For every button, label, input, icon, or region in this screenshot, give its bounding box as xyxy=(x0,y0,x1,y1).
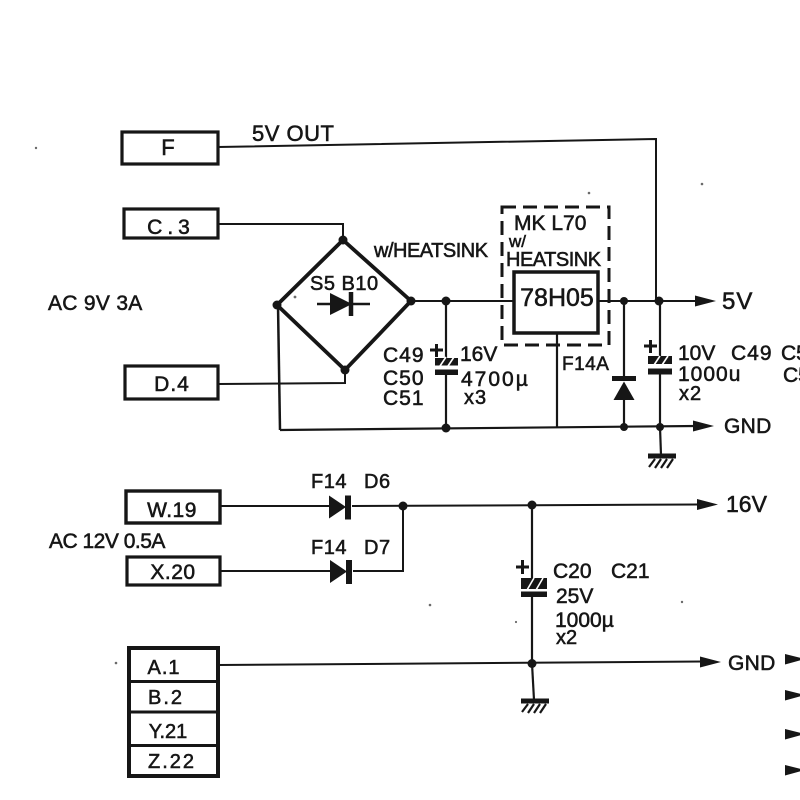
svg-text:D.4: D.4 xyxy=(154,373,190,396)
node cap 1000u bottom xyxy=(656,423,664,431)
GND rail section 1 xyxy=(280,426,696,430)
svg-text:Z.22: Z.22 xyxy=(148,751,196,773)
svg-text:GND: GND xyxy=(724,415,772,438)
svg-text:S5 B10: S5 B10 xyxy=(310,273,379,295)
connector W.19 xyxy=(126,491,220,523)
node bridge bottom xyxy=(341,366,350,375)
node C49 top xyxy=(442,297,451,306)
right edge arrow 1 xyxy=(785,654,800,665)
svg-text:C52: C52 xyxy=(781,342,800,365)
capacitor C49 C50 C51 xyxy=(445,301,447,358)
svg-text:Y.21: Y.21 xyxy=(149,721,188,743)
connector X.20 xyxy=(127,557,220,585)
wire regulator ground pin xyxy=(556,333,558,427)
node cap C49 bottom xyxy=(442,424,451,433)
node 5V junction xyxy=(655,297,664,306)
node bridge right xyxy=(407,297,416,306)
svg-text:C53: C53 xyxy=(783,364,800,387)
svg-text:C.3: C.3 xyxy=(147,216,195,239)
wire C.3 to bridge top xyxy=(218,224,343,240)
arrow GND section 1 xyxy=(693,421,714,432)
wire D.4 to bridge bottom xyxy=(218,370,345,384)
right edge arrow 3 xyxy=(785,729,800,740)
diode D6 xyxy=(329,496,346,519)
svg-text:F14A: F14A xyxy=(562,354,609,375)
connector block A.1 B.2 Y.21 Z.22 xyxy=(129,648,218,776)
node diode bottom xyxy=(620,423,628,431)
right edge arrow 2 xyxy=(785,690,800,701)
svg-text:F: F xyxy=(161,135,174,160)
svg-text:78H05: 78H05 xyxy=(520,284,594,312)
arrow 5V xyxy=(695,296,716,307)
svg-text:D6: D6 xyxy=(364,471,391,493)
bridge rectifier S5 B10 xyxy=(277,240,411,370)
regulator 78H05 xyxy=(514,272,598,333)
wire D6 to 16V arrow xyxy=(352,505,699,507)
node C20 bottom xyxy=(528,659,537,668)
svg-text:X.20: X.20 xyxy=(150,561,195,584)
wire D7 up to junction xyxy=(353,506,403,571)
node bridge top xyxy=(339,236,348,245)
connector F xyxy=(122,132,218,164)
svg-text:w/HEATSINK: w/HEATSINK xyxy=(373,240,489,262)
connector C.3 xyxy=(124,209,218,238)
arrow GND section 2 xyxy=(700,657,721,668)
svg-text:5V: 5V xyxy=(722,288,753,315)
svg-text:C20: C20 xyxy=(553,560,592,583)
wire bridge left vertex down to GND rail xyxy=(278,305,280,430)
svg-text:AC 9V 3A: AC 9V 3A xyxy=(48,292,143,315)
wire 5V OUT from F box to vertical drop xyxy=(218,139,656,301)
node bridge left xyxy=(273,301,282,310)
GND rail section 2 xyxy=(218,662,702,666)
svg-text:x2: x2 xyxy=(679,383,702,405)
ground symbol section 1 xyxy=(660,427,661,455)
svg-text:16V: 16V xyxy=(726,491,768,517)
svg-text:F14: F14 xyxy=(311,471,347,493)
right edge arrow 4 xyxy=(785,765,800,776)
svg-text:25V: 25V xyxy=(556,585,593,608)
diode D7 xyxy=(330,560,347,583)
svg-text:C49: C49 xyxy=(383,344,425,367)
svg-text:AC 12V 0.5A: AC 12V 0.5A xyxy=(49,530,165,553)
connector D.4 xyxy=(125,366,218,399)
svg-text:C21: C21 xyxy=(611,560,650,583)
svg-text:x2: x2 xyxy=(556,627,577,649)
regulator dashed box MK L70 xyxy=(502,207,609,345)
wire X.20 to D7 xyxy=(220,570,331,572)
svg-text:HEATSINK: HEATSINK xyxy=(506,249,602,271)
node diode top xyxy=(620,297,628,305)
wire W.19 to D6 xyxy=(220,505,330,507)
ground symbol section 2 xyxy=(532,664,534,701)
svg-text:D7: D7 xyxy=(364,537,391,559)
node D6/D7 junction xyxy=(399,502,408,511)
wire 5V rail: bridge to regulator xyxy=(411,300,514,302)
scan specks xyxy=(35,147,704,665)
capacitor 1000u x2 xyxy=(659,301,661,356)
svg-text:5V OUT: 5V OUT xyxy=(252,121,334,146)
arrow 16V xyxy=(697,499,718,510)
diode protection (5V to GND) xyxy=(623,301,625,378)
svg-text:10V: 10V xyxy=(678,342,715,365)
svg-text:F14: F14 xyxy=(311,537,347,559)
svg-text:C51: C51 xyxy=(383,387,425,410)
capacitor C20 C21 xyxy=(531,505,533,578)
node C20 top xyxy=(528,501,537,510)
diode inside bridge xyxy=(317,303,370,306)
svg-text:B.2: B.2 xyxy=(148,687,184,709)
svg-text:16V: 16V xyxy=(460,343,497,366)
svg-text:C49: C49 xyxy=(731,342,773,365)
svg-text:GND: GND xyxy=(728,652,776,675)
wire 5V rail: regulator to 5V arrow xyxy=(598,300,698,302)
svg-text:W.19: W.19 xyxy=(147,499,197,522)
svg-text:A.1: A.1 xyxy=(147,657,180,679)
svg-text:x3: x3 xyxy=(464,387,487,409)
